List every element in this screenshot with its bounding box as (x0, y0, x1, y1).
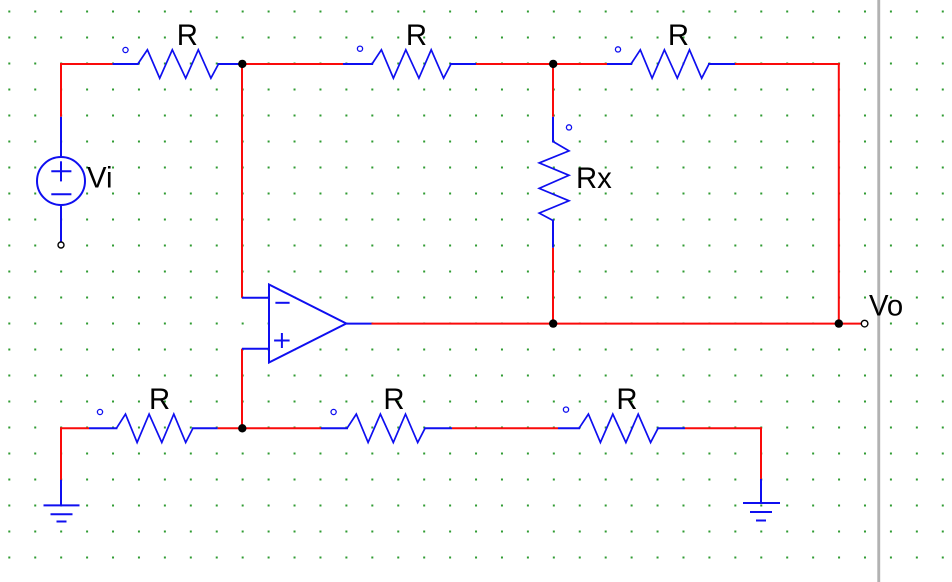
pin marker resistor Rx (566, 125, 571, 130)
svg-text:R: R (616, 383, 637, 416)
wire: output net, op-amp output to Vo terminal (372, 323, 862, 325)
junction node C (R4/R5/non-inverting input) (238, 424, 246, 432)
wire: Vi top lead vertical (60, 63, 62, 117)
wire: bottom net, R5 right to R6 left (452, 427, 558, 429)
resistor R1 (top left) (113, 50, 242, 78)
wire: bottom net, R6 right to bottom-right corner (685, 427, 762, 429)
resistor R6 (bottom right) (558, 414, 685, 442)
junction: Rx bottom on output net (549, 319, 557, 327)
ground (bottom right) (743, 479, 780, 521)
label Vi (87, 162, 113, 195)
resistor R2 (top middle) (343, 50, 476, 78)
pin marker resistor R2 (357, 46, 362, 51)
label R (R1) (177, 19, 198, 52)
resistor R3 (top right) (607, 50, 735, 78)
junction node A (R1/R2/inverting input) (238, 60, 246, 68)
wire: right vertical, top-right corner down to output node (838, 63, 840, 324)
wire: top net, R3 right to top-right corner (735, 63, 840, 65)
terminal Vo (open circle) (861, 320, 868, 327)
wire: top net, Vi top to R1 left (60, 63, 113, 65)
svg-text:Vo: Vo (869, 289, 903, 322)
junction node B (R2/R3/Rx top) (549, 60, 557, 68)
op-amp U1 (242, 285, 372, 363)
pin marker resistor R4 (97, 409, 102, 414)
label Vo (869, 289, 903, 322)
terminal: Vi minus (open circle) (58, 242, 64, 248)
wire: inverting input vertical from node A (241, 63, 243, 298)
resistor R4 (bottom left) (89, 414, 218, 442)
wire: top net, R2 right to R3 left (through node B) (476, 63, 607, 65)
wire: top net, R1 right to R2 left (through node A) (242, 63, 343, 65)
svg-text:R: R (383, 383, 404, 416)
wire: bottom-right vertical to ground (760, 427, 762, 479)
svg-text:R: R (177, 19, 198, 52)
pin marker resistor R1 (123, 47, 128, 52)
svg-text:Rx: Rx (576, 162, 612, 195)
wire: non-inverting input vertical down to bottom net (241, 349, 243, 429)
pin marker resistor R3 (615, 47, 620, 52)
label R (R3) (668, 19, 689, 52)
junction: feedback column on output net (835, 319, 843, 327)
resistor R5 (bottom middle) (321, 414, 452, 442)
wire: bottom net, R4 right to R5 left (through node C) (218, 427, 321, 429)
svg-text:Vi: Vi (87, 162, 113, 195)
pin marker resistor R6 (563, 407, 568, 412)
resistor Rx (vertical) (539, 117, 569, 248)
svg-text:R: R (149, 383, 170, 416)
label R (R5) (383, 383, 404, 416)
label R (R6) (616, 383, 637, 416)
svg-text:R: R (668, 19, 689, 52)
wire: Rx top lead from node B (552, 63, 554, 117)
label Rx (576, 162, 612, 195)
wire: bottom-left vertical to ground (60, 427, 62, 480)
svg-text:R: R (406, 19, 427, 52)
ground (bottom left) (44, 480, 80, 522)
label R (R4) (149, 383, 170, 416)
label R (R2) (406, 19, 427, 52)
pin marker resistor R5 (331, 409, 336, 414)
wire: bottom net, left corner to R4 (60, 427, 89, 429)
wire: Rx bottom lead to output net (552, 248, 554, 324)
voltage source Vi (37, 117, 85, 242)
